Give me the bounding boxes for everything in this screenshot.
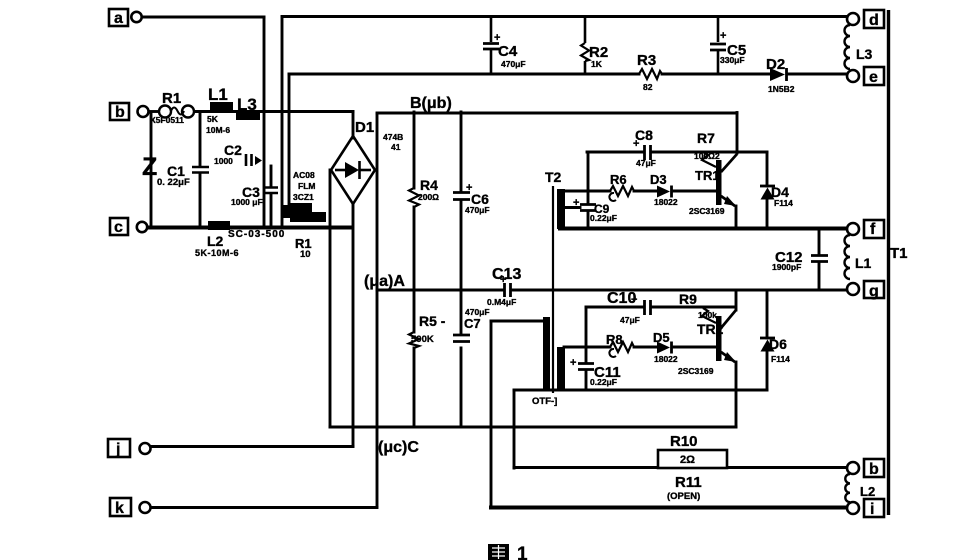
svg-text:3CZ1: 3CZ1	[293, 192, 314, 202]
svg-text:+: +	[633, 138, 639, 150]
svg-text:R9: R9	[679, 291, 697, 307]
svg-text:B(μb): B(μb)	[410, 95, 452, 112]
svg-text:L3: L3	[237, 95, 257, 114]
svg-text:1000 μF: 1000 μF	[231, 197, 263, 207]
svg-text:+: +	[500, 274, 506, 286]
svg-text:R4: R4	[420, 177, 438, 193]
svg-text:X5F0511: X5F0511	[150, 115, 184, 125]
svg-text:L1: L1	[208, 85, 228, 104]
svg-text:200Ω: 200Ω	[418, 192, 439, 202]
svg-text:470μF: 470μF	[501, 59, 526, 69]
svg-text:0.22μF: 0.22μF	[590, 213, 617, 223]
svg-text:TR2: TR2	[697, 321, 724, 337]
svg-text:i: i	[870, 501, 874, 518]
svg-text:R5 -: R5 -	[419, 313, 446, 329]
svg-text:D1: D1	[355, 119, 374, 136]
svg-text:C13: C13	[492, 266, 521, 283]
svg-text:0.22μF: 0.22μF	[590, 377, 617, 387]
svg-text:+: +	[631, 294, 637, 306]
svg-text:C4: C4	[498, 43, 518, 60]
svg-text:+: +	[720, 30, 726, 42]
svg-text:2SC3169: 2SC3169	[678, 366, 714, 376]
svg-text:470μF: 470μF	[465, 307, 490, 317]
svg-text:L3: L3	[856, 46, 873, 62]
svg-text:0. 22μF: 0. 22μF	[157, 177, 190, 188]
svg-text:1N5B2: 1N5B2	[768, 84, 795, 94]
svg-text:2SC3169: 2SC3169	[689, 206, 725, 216]
svg-text:+: +	[573, 197, 579, 209]
svg-text:SC-03-500: SC-03-500	[228, 229, 285, 240]
svg-text:T2: T2	[545, 169, 562, 185]
svg-text:(μc)C: (μc)C	[378, 439, 419, 456]
svg-text:470μF: 470μF	[465, 205, 490, 215]
svg-text:b: b	[115, 104, 125, 121]
svg-text:1900pF: 1900pF	[772, 262, 801, 272]
svg-text:e: e	[869, 69, 878, 86]
svg-text:+: +	[466, 182, 472, 194]
svg-text:47μF: 47μF	[620, 315, 640, 325]
svg-text:L2: L2	[860, 484, 875, 499]
svg-text:b: b	[869, 461, 879, 478]
svg-text:R11: R11	[675, 474, 702, 491]
svg-text:R3: R3	[637, 52, 656, 69]
svg-text:D6: D6	[769, 336, 787, 352]
svg-text:f: f	[870, 221, 876, 238]
svg-text:+: +	[570, 357, 576, 369]
svg-text:D5: D5	[653, 330, 670, 345]
svg-text:1K: 1K	[591, 59, 603, 69]
svg-text:AC08: AC08	[293, 170, 315, 180]
svg-text:F114: F114	[774, 198, 793, 208]
svg-text:D2: D2	[766, 56, 785, 73]
svg-text:TR1: TR1	[695, 168, 720, 183]
svg-text:(μa)A: (μa)A	[364, 273, 405, 290]
svg-text:F114: F114	[771, 354, 790, 364]
svg-text:10M-6: 10M-6	[206, 125, 230, 135]
svg-text:5K: 5K	[207, 114, 219, 124]
svg-text:L1: L1	[855, 255, 872, 271]
svg-text:Z: Z	[142, 153, 157, 181]
svg-text:d: d	[869, 12, 879, 29]
svg-text:474B: 474B	[383, 132, 403, 142]
svg-text:c: c	[114, 219, 123, 236]
svg-text:100Ω2: 100Ω2	[694, 151, 720, 161]
svg-text:500K: 500K	[411, 334, 434, 345]
svg-text:18022: 18022	[654, 197, 678, 207]
svg-text:10: 10	[300, 249, 311, 260]
svg-text:R1: R1	[162, 90, 181, 107]
svg-text:0.M4μF: 0.M4μF	[487, 297, 516, 307]
svg-text:R10: R10	[670, 433, 698, 450]
svg-text:18022: 18022	[654, 354, 678, 364]
svg-text:330μF: 330μF	[720, 55, 745, 65]
svg-text:C7: C7	[464, 316, 481, 331]
svg-text:k: k	[115, 500, 124, 517]
svg-text:g: g	[869, 283, 879, 300]
svg-text:T1: T1	[890, 245, 908, 262]
svg-text:82: 82	[643, 82, 653, 92]
svg-text:R8: R8	[606, 332, 623, 347]
svg-text:D3: D3	[650, 172, 667, 187]
svg-text:OTF-]: OTF-]	[532, 396, 557, 407]
svg-text:j: j	[115, 441, 120, 458]
svg-text:R7: R7	[697, 130, 715, 146]
svg-text:2Ω: 2Ω	[680, 454, 695, 466]
svg-text:FLM: FLM	[298, 181, 315, 191]
svg-text:(OPEN): (OPEN)	[667, 491, 700, 502]
svg-text:1: 1	[517, 544, 528, 560]
svg-text:a: a	[114, 10, 123, 27]
svg-text:41: 41	[391, 142, 401, 152]
svg-text:1000: 1000	[214, 156, 233, 166]
svg-text:100k: 100k	[698, 310, 717, 320]
svg-text:R6: R6	[610, 172, 627, 187]
svg-text:5K-10M-6: 5K-10M-6	[195, 248, 239, 258]
svg-text:L2: L2	[207, 233, 224, 249]
svg-text:47μF: 47μF	[636, 158, 656, 168]
svg-text:+: +	[494, 32, 500, 44]
